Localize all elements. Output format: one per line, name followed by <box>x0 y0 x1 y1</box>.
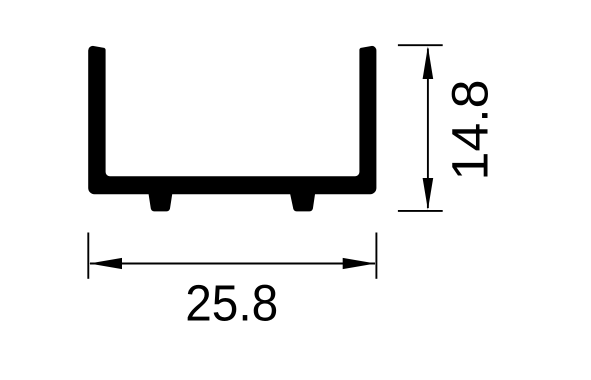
height arrowhead top <box>423 47 434 80</box>
height extension line top <box>398 44 443 46</box>
width extension line right <box>375 233 377 279</box>
U-channel profile cross-section <box>88 46 376 212</box>
width extension line left <box>87 233 89 279</box>
svg-text:25.8: 25.8 <box>185 275 278 332</box>
width dimension line <box>90 263 375 265</box>
width arrowhead left <box>89 258 122 269</box>
svg-text:14.8: 14.8 <box>442 80 499 181</box>
height extension line bottom <box>398 210 443 212</box>
height dimension line <box>427 49 429 209</box>
width arrowhead right <box>343 258 376 269</box>
height arrowhead bottom <box>423 178 434 210</box>
